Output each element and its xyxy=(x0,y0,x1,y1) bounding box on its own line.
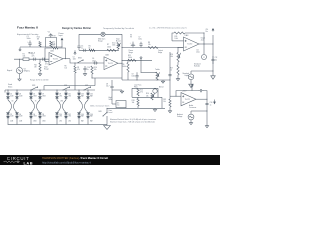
diode pair column D5/D6 xyxy=(30,90,37,125)
arrow supply out xyxy=(212,29,214,32)
svg-text:LED: LED xyxy=(68,121,71,123)
text gain note 2 xyxy=(110,121,155,124)
svg-text:D1: D1 xyxy=(10,94,12,96)
diode pair column D13/D14 xyxy=(78,90,84,125)
power input tower xyxy=(59,33,64,48)
label output stage xyxy=(158,49,163,54)
svg-text:SW6: SW6 xyxy=(98,111,101,113)
wire OA2 input row xyxy=(75,62,104,65)
svg-text:4148: 4148 xyxy=(10,121,13,123)
svg-text:D7: D7 xyxy=(42,94,44,96)
wire vertical rail 122 xyxy=(121,47,124,80)
svg-text:1N34: 1N34 xyxy=(42,116,46,118)
wire left branch xyxy=(112,90,116,104)
svg-text:LED: LED xyxy=(59,121,62,123)
resistor R12 xyxy=(137,88,143,96)
svg-text:Diode: Diode xyxy=(8,84,12,86)
svg-text:1k: 1k xyxy=(89,48,91,50)
ground arrow rail xyxy=(211,71,216,79)
capacitor C10 shunt xyxy=(83,66,90,76)
svg-text:1N34: 1N34 xyxy=(42,121,45,123)
source blend circle xyxy=(153,88,157,93)
title Fuzz Maniac II xyxy=(17,26,38,30)
svg-text:Experimental Circuitry: Experimental Circuitry xyxy=(17,33,39,36)
label Mid Gain Stage xyxy=(98,38,105,42)
svg-text:100n: 100n xyxy=(132,76,136,78)
label high volts xyxy=(109,97,113,101)
switch SW6 fuzz xyxy=(98,108,107,124)
switch SW2 xyxy=(78,58,84,64)
battery V1 9V supply tower xyxy=(48,32,57,38)
svg-text:R8: R8 xyxy=(148,42,150,44)
diode pair column D3/D4 xyxy=(13,90,22,125)
svg-text:Signal: Signal xyxy=(7,70,13,72)
label fuzz level xyxy=(109,110,113,114)
svg-text:1u: 1u xyxy=(87,69,89,71)
svg-text:C12: C12 xyxy=(215,57,218,59)
svg-text:1N34: 1N34 xyxy=(42,95,46,97)
label Si xyxy=(35,101,37,103)
resistor R21 input shunt xyxy=(34,59,41,73)
svg-text:D12: D12 xyxy=(68,114,71,116)
resistor R3 shunt xyxy=(74,63,80,75)
label diode select xyxy=(8,84,13,88)
label audio crossover xyxy=(189,104,197,109)
svg-text:4148: 4148 xyxy=(10,95,13,97)
label Gain Stage xyxy=(44,67,49,71)
svg-text:Range 10 Hz to 10 kHz: Range 10 Hz to 10 kHz xyxy=(30,79,49,82)
label Drive pot xyxy=(116,38,121,42)
CircuitLab logo text LAB xyxy=(24,160,34,165)
svg-text:SW4: SW4 xyxy=(64,85,67,87)
svg-text:C9: C9 xyxy=(132,74,134,76)
footer bar xyxy=(0,155,220,165)
svg-text:10k: 10k xyxy=(94,69,97,71)
svg-text:4148: 4148 xyxy=(19,95,22,97)
svg-text:LED: LED xyxy=(59,95,62,97)
capacitor C5 xyxy=(81,45,87,52)
svg-text:TL072: TL072 xyxy=(185,99,190,101)
wire OA4 plus input xyxy=(170,95,181,97)
wire OA2 output xyxy=(118,62,123,65)
svg-text:SW5: SW5 xyxy=(85,85,88,87)
text gain note 1 xyxy=(110,118,157,121)
ground right rail xyxy=(205,124,208,128)
ground diamond node left xyxy=(19,47,21,51)
label R6 xyxy=(65,65,68,69)
svg-text:D13: D13 xyxy=(81,94,84,96)
svg-text:D5: D5 xyxy=(33,94,35,96)
label standard output xyxy=(183,72,190,77)
wire OA1 output xyxy=(63,57,70,60)
svg-text:TL072: TL072 xyxy=(53,58,58,60)
svg-text:C16: C16 xyxy=(210,102,213,104)
svg-text:Mute 1: Mute 1 xyxy=(29,52,36,55)
resistor R8 xyxy=(148,42,158,49)
svg-text:25k: 25k xyxy=(146,95,149,97)
svg-text:D14: D14 xyxy=(81,114,84,116)
wire OA1 out down xyxy=(70,59,75,63)
diode pair column D7/D8 xyxy=(36,90,45,125)
svg-text:D10: D10 xyxy=(59,114,62,116)
voltage source V4 ambient xyxy=(188,111,194,120)
subtitle Experimental Circuitry xyxy=(17,33,39,36)
svg-text:4148: 4148 xyxy=(19,116,22,118)
wire tone bottom xyxy=(122,79,170,82)
wire OA2 to matrix xyxy=(74,75,76,90)
wire OA3 minus xyxy=(178,48,184,53)
svg-text:1N34: 1N34 xyxy=(33,121,36,123)
wire OA3 output xyxy=(199,43,204,46)
wire mixer rail 170 xyxy=(168,52,171,96)
diode pair column D11/D12 xyxy=(62,90,71,125)
footer url xyxy=(42,160,91,164)
ground volume xyxy=(176,75,179,81)
resistor R2 bias xyxy=(50,41,56,47)
svg-text:+: + xyxy=(189,117,190,119)
text Temporarily Verified by CircuitLab xyxy=(103,27,135,30)
svg-text:C11: C11 xyxy=(196,49,199,51)
lamp LMP1 xyxy=(101,32,105,36)
svg-text:Power: Power xyxy=(129,50,134,52)
svg-text:+12V: +12V xyxy=(182,90,187,92)
svg-text:100u: 100u xyxy=(138,39,142,41)
wire bias loop xyxy=(46,38,57,48)
voltage source V2 signal xyxy=(16,59,22,78)
capacitor C8 xyxy=(106,80,114,90)
wire treble row xyxy=(141,71,157,74)
wire OA3 feedback xyxy=(172,33,204,44)
svg-text:D8: D8 xyxy=(42,114,44,116)
svg-text:D16: D16 xyxy=(90,114,93,116)
svg-text:LED: LED xyxy=(68,116,71,118)
voltmeter circle xyxy=(196,44,206,60)
op-amp OA4 xyxy=(181,90,196,105)
svg-text:10u: 10u xyxy=(106,86,109,88)
svg-text:47k: 47k xyxy=(77,69,80,71)
svg-text:Input: Input xyxy=(59,34,63,37)
svg-text:HARRISON RICHTER (Karlius) / F: HARRISON RICHTER (Karlius) / Fuzz Maniac… xyxy=(42,156,108,160)
svg-text:OA2: OA2 xyxy=(105,54,109,57)
capacitor C12 xyxy=(211,56,217,64)
svg-text:1N34: 1N34 xyxy=(33,116,37,118)
diode pair column D1/D2 xyxy=(7,90,14,125)
wire matrix top bus xyxy=(5,78,95,93)
svg-text:D6: D6 xyxy=(33,114,35,116)
capacitor C6 xyxy=(92,58,98,64)
svg-text:Earbuds: Earbuds xyxy=(194,66,200,68)
wire OA3 inputs xyxy=(172,40,184,42)
svg-text:10k: 10k xyxy=(148,44,151,46)
svg-text:10k: 10k xyxy=(65,68,68,70)
resistor R1 xyxy=(23,54,30,61)
potentiometer R14 tone xyxy=(146,93,155,100)
svg-text:OA1: OA1 xyxy=(50,49,54,52)
svg-text:C4: C4 xyxy=(73,57,75,59)
resistor R18 xyxy=(132,97,140,108)
diode pair column D15/D16 xyxy=(84,90,93,125)
voltage source V5 reference xyxy=(187,71,194,80)
svg-text:1k: 1k xyxy=(170,70,172,72)
switch SW4 xyxy=(63,85,71,90)
capacitor C4 rail xyxy=(77,43,80,50)
svg-text:D2: D2 xyxy=(10,114,12,116)
potentiometer R13 treble xyxy=(155,68,160,80)
svg-text:SW3: SW3 xyxy=(32,85,35,87)
label blend xyxy=(159,86,163,88)
capacitor C1 electrolytic xyxy=(27,36,32,47)
resistor R7 xyxy=(107,44,116,51)
capacitor C16 xyxy=(205,102,212,106)
wire OA1 minus input xyxy=(45,61,49,63)
svg-text:Fuzz: Fuzz xyxy=(109,110,113,112)
svg-text:D11: D11 xyxy=(68,94,71,96)
svg-text:10u: 10u xyxy=(215,59,218,61)
wire input node xyxy=(14,58,49,61)
svg-text:R18: R18 xyxy=(132,100,135,102)
text op-amp note xyxy=(149,26,187,29)
svg-text:4.7k: 4.7k xyxy=(140,92,143,94)
ground R21 xyxy=(38,73,41,76)
svg-text:100k: 100k xyxy=(112,45,116,47)
svg-text:4.7n: 4.7n xyxy=(45,64,48,66)
svg-text:R6: R6 xyxy=(65,65,67,67)
wire tone vertical xyxy=(140,60,142,72)
svg-text:47n: 47n xyxy=(32,56,35,58)
label low pass filter xyxy=(134,84,141,88)
svg-text:R21: R21 xyxy=(34,64,37,66)
label C4 xyxy=(73,57,77,61)
label LED xyxy=(60,101,64,103)
svg-text:100k: 100k xyxy=(175,38,179,40)
label range xyxy=(30,79,49,82)
label power input 2 xyxy=(129,50,134,54)
wire OA4 feedback xyxy=(176,91,208,100)
svg-text:TL072: TL072 xyxy=(108,63,113,65)
svg-text:LED: LED xyxy=(59,116,62,118)
wire right rail lower xyxy=(206,99,209,124)
svg-text:C7: C7 xyxy=(138,36,140,38)
svg-text:4148: 4148 xyxy=(10,116,13,118)
potentiometer R6 drive xyxy=(112,42,121,51)
svg-text:Stage: Stage xyxy=(44,68,49,71)
capacitor C7 xyxy=(138,36,142,47)
wire V4 row xyxy=(191,110,207,112)
ground V4 xyxy=(189,120,192,125)
resistor R4 feedback xyxy=(51,43,58,50)
svg-text:C8: C8 xyxy=(106,84,108,86)
label ambient voltage xyxy=(177,113,183,118)
label Mute 1 xyxy=(29,52,36,55)
svg-text:SW2: SW2 xyxy=(78,58,82,60)
resistor R9 xyxy=(122,60,129,80)
svg-text:Crossover: Crossover xyxy=(189,107,197,109)
wire input power rail xyxy=(20,46,62,48)
svg-text:R14: R14 xyxy=(146,93,149,95)
wire top rail xyxy=(79,34,122,47)
svg-text:4148: 4148 xyxy=(19,121,22,123)
svg-text:V3: V3 xyxy=(130,34,132,36)
svg-text:Fuzz Maniac II: Fuzz Maniac II xyxy=(17,26,38,30)
svg-text:10k: 10k xyxy=(163,101,166,103)
svg-text:R19: R19 xyxy=(163,99,166,101)
svg-text:10k: 10k xyxy=(170,56,173,58)
resistor R19 xyxy=(163,96,171,109)
svg-text:1N34: 1N34 xyxy=(33,95,37,97)
svg-text:mix: mix xyxy=(117,105,120,107)
svg-text:10u: 10u xyxy=(206,31,209,33)
svg-text:100n: 100n xyxy=(92,60,96,62)
ground C8 xyxy=(120,90,123,93)
svg-text:C14: C14 xyxy=(206,29,209,31)
svg-text:100k: 100k xyxy=(122,66,126,68)
block DC box xyxy=(116,101,126,108)
label germanium switch xyxy=(90,104,109,107)
svg-text:D3: D3 xyxy=(19,94,21,96)
wire OA1 feedback loop xyxy=(45,48,66,62)
CircuitLab logo resistor glyph xyxy=(4,161,20,163)
arrow down right xyxy=(214,100,216,104)
resistor R10 shunt xyxy=(91,66,97,78)
ground tone xyxy=(161,80,164,83)
wire bottom mid bus xyxy=(107,108,165,109)
resistor R15 feedback xyxy=(174,32,185,40)
wire C8 gnd xyxy=(112,89,122,91)
CircuitLab logo text CIRCUIT xyxy=(7,156,30,161)
diode pair column D9/D10 xyxy=(56,90,62,125)
footer author and title xyxy=(42,156,108,160)
label Signal xyxy=(7,70,13,72)
svg-text:D4: D4 xyxy=(19,114,21,116)
svg-text:R12: R12 xyxy=(140,89,143,91)
svg-text:10k: 10k xyxy=(23,56,26,58)
ground arrow matrix bus xyxy=(104,124,111,129)
ground arrow V5 xyxy=(189,80,194,88)
svg-text:100k: 100k xyxy=(128,57,132,59)
ground below V2 xyxy=(18,78,21,81)
svg-text:100u: 100u xyxy=(27,38,31,40)
wire output rail xyxy=(204,35,213,71)
text Design by Karlius Richter xyxy=(62,27,91,30)
wire riser 162 xyxy=(161,97,163,108)
wire lower bus xyxy=(92,77,122,80)
wire rail junction row xyxy=(191,70,213,73)
svg-text:100n: 100n xyxy=(73,59,77,61)
ground mid bus xyxy=(153,108,156,111)
svg-text:Design by Karlius Richter: Design by Karlius Richter xyxy=(62,27,91,30)
svg-text:Boost: Boost xyxy=(116,40,121,43)
capacitor C2 xyxy=(32,54,38,61)
ground R19 xyxy=(168,110,171,113)
label standard earbuds xyxy=(194,62,201,67)
wire lowpass top xyxy=(132,88,158,97)
svg-text:D15: D15 xyxy=(90,94,93,96)
battery V3 xyxy=(130,34,135,47)
op-amp OA3 xyxy=(184,34,200,51)
svg-text:100k: 100k xyxy=(51,45,55,47)
capacitor C3 xyxy=(41,58,48,66)
svg-text:SIN(0 1): SIN(0 1) xyxy=(24,71,31,73)
wire tone top xyxy=(122,59,152,62)
wire tone stack row xyxy=(132,96,162,99)
wire matrix bottom bus xyxy=(8,123,107,125)
svg-text:R3: R3 xyxy=(77,67,79,69)
svg-text:OA3: OA3 xyxy=(185,34,189,37)
svg-text:R22: R22 xyxy=(37,37,40,39)
label V2 SIN xyxy=(24,69,31,73)
switch SW3 xyxy=(31,85,39,90)
svg-text:TL072: TL072 xyxy=(187,44,192,46)
svg-text:R15: R15 xyxy=(175,36,178,38)
svg-text:D9: D9 xyxy=(59,94,61,96)
label output jack xyxy=(201,29,209,42)
supply diamond tone xyxy=(140,57,142,61)
svg-text:V1: V1 xyxy=(48,32,50,34)
svg-text:10k: 10k xyxy=(132,102,135,104)
wire supply row xyxy=(122,46,183,49)
resistor R11 xyxy=(128,55,136,62)
svg-text:1u: 1u xyxy=(210,104,212,106)
svg-text:Stage: Stage xyxy=(98,40,103,43)
svg-text:(10u): (10u) xyxy=(196,52,200,54)
resistor R17 xyxy=(170,62,179,75)
svg-text:Ge: Ge xyxy=(11,101,13,103)
capacitor C13 feedback xyxy=(198,89,204,92)
supply diamond OA4 xyxy=(191,85,193,91)
svg-text:Jack: Jack xyxy=(201,40,204,42)
capacitor C9 xyxy=(132,72,139,80)
resistor R5 xyxy=(89,45,96,51)
svg-text:Treble: Treble xyxy=(155,68,160,71)
op-amp OA1 xyxy=(49,49,63,65)
svg-text:Blend: Blend xyxy=(159,86,163,88)
switch SW5 xyxy=(84,85,92,90)
resistor R22 tower xyxy=(37,37,41,47)
svg-text:Temporarily Verified by Circui: Temporarily Verified by CircuitLab xyxy=(103,27,135,30)
svg-text:1u: 1u xyxy=(81,48,83,50)
wire OA4 output xyxy=(196,98,207,100)
svg-text:100k: 100k xyxy=(107,46,111,48)
svg-text:http://circuitlab.com/c/8pdc6/: http://circuitlab.com/c/8pdc6/fuzz-mania… xyxy=(42,160,91,164)
wire mid stage xyxy=(79,49,119,51)
ground diamond mid xyxy=(74,50,76,54)
svg-text:LAB: LAB xyxy=(24,160,34,165)
potentiometer R16 volume xyxy=(170,53,181,63)
op-amp OA2 xyxy=(104,54,118,70)
label Ge xyxy=(11,101,13,103)
svg-text:LED: LED xyxy=(68,95,71,97)
